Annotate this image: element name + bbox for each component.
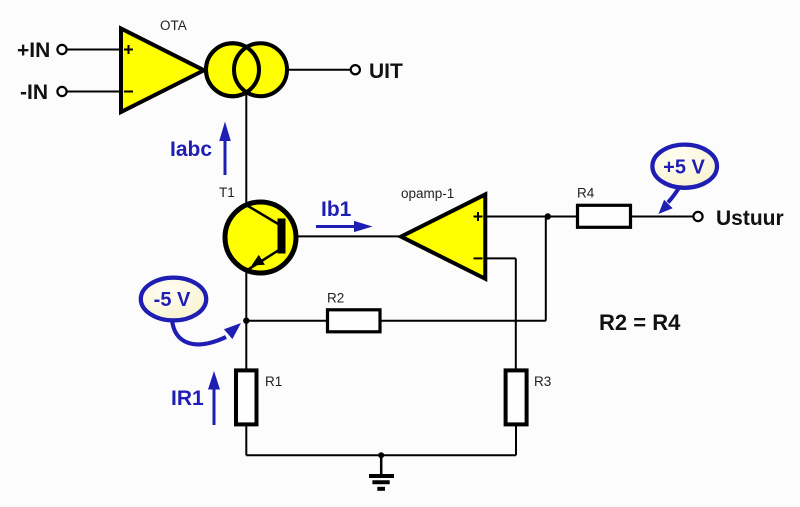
svg-text:R4: R4 xyxy=(577,186,595,201)
svg-text:+IN: +IN xyxy=(17,39,50,62)
svg-text:-IN: -IN xyxy=(20,81,48,104)
svg-text:R2 = R4: R2 = R4 xyxy=(599,310,681,335)
svg-text:+5 V: +5 V xyxy=(663,157,705,179)
svg-text:R1: R1 xyxy=(265,374,282,389)
svg-text:opamp-1: opamp-1 xyxy=(401,186,454,201)
svg-text:R3: R3 xyxy=(534,374,551,389)
svg-text:Ustuur: Ustuur xyxy=(716,207,784,230)
svg-text:IR1: IR1 xyxy=(171,387,204,410)
svg-text:Ib1: Ib1 xyxy=(321,198,352,221)
svg-text:UIT: UIT xyxy=(369,60,403,83)
svg-text:-5 V: -5 V xyxy=(154,289,191,311)
svg-text:OTA: OTA xyxy=(160,18,187,33)
svg-text:Iabc: Iabc xyxy=(170,138,212,161)
svg-text:T1: T1 xyxy=(219,185,235,200)
svg-text:R2: R2 xyxy=(327,291,344,306)
